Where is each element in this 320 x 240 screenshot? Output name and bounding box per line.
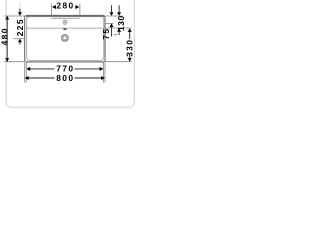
dimension 75 [111, 5, 113, 36]
extension line bottom-right [105, 61, 132, 63]
svg-text:800: 800 [56, 73, 74, 83]
extension line 800 right [104, 62, 106, 82]
washbasin outer rim [25, 15, 105, 62]
dimension 480 [6, 16, 8, 62]
extension line faucet-right [105, 22, 114, 24]
svg-text:330: 330 [124, 39, 134, 57]
card border [6, 0, 134, 107]
dimension 800 [28, 77, 102, 79]
dimension 225 [19, 2, 21, 8]
drain inner [63, 36, 67, 40]
svg-text:75: 75 [101, 28, 111, 40]
drain outer [62, 35, 69, 42]
dimension 770 [30, 68, 101, 70]
washbasin inner rim [27, 17, 104, 61]
extension line drain-top-right [114, 34, 118, 36]
faucet hole [63, 20, 67, 24]
dimension 330 [129, 31, 131, 59]
extension line 800 left [24, 62, 26, 82]
extension line 770 left [25, 62, 27, 82]
extension line bowl-right [105, 27, 132, 29]
svg-text:280: 280 [56, 0, 74, 10]
extension line top-left [4, 15, 24, 17]
extension line 280 right [79, 4, 81, 15]
dimension 130 [118, 5, 120, 35]
extension line 770 right [103, 62, 105, 82]
overflow tick [63, 28, 66, 30]
bowl top edge line [27, 27, 104, 29]
tap deck line [51, 17, 80, 19]
extension line bottom-left [4, 61, 24, 63]
dimension 280 [52, 5, 80, 9]
rim top dark band line [26, 16, 104, 18]
extension line top-right [105, 15, 123, 17]
svg-text:130: 130 [116, 15, 126, 31]
svg-text:480: 480 [0, 27, 10, 45]
svg-text:225: 225 [15, 18, 25, 36]
extension line drain-left [13, 38, 25, 40]
extension line 280 left [50, 4, 52, 15]
